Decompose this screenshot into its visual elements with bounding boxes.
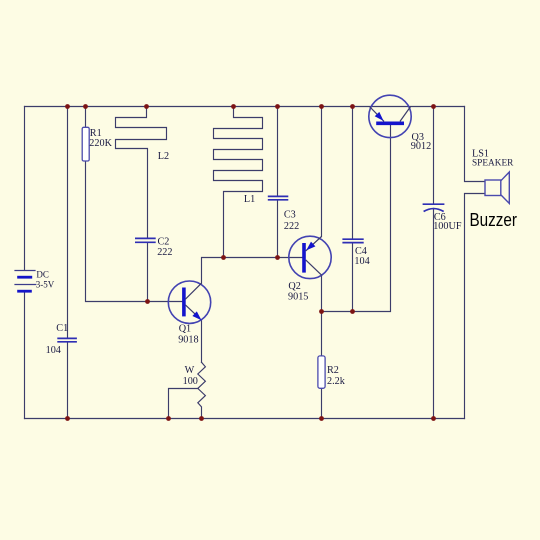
node Q1 base / C2 — [145, 299, 150, 304]
svg-text:222: 222 — [157, 247, 172, 258]
svg-text:9018: 9018 — [178, 335, 198, 346]
wire R1 top lead — [85, 107, 87, 128]
svg-text:220K: 220K — [89, 138, 112, 149]
battery DC: plates — [14, 271, 36, 292]
svg-text:W: W — [185, 365, 195, 376]
battery long plate 2 — [14, 284, 36, 286]
svg-text:R2: R2 — [327, 365, 339, 376]
capacitor C3 — [268, 196, 289, 199]
svg-text:2.2k: 2.2k — [327, 376, 346, 387]
node top rail / L1 — [231, 104, 236, 109]
svg-text:DC: DC — [36, 269, 49, 279]
resistor R2 — [318, 356, 325, 388]
node top rail / C3 — [275, 104, 280, 109]
svg-text:104: 104 — [354, 256, 369, 267]
svg-text:9015: 9015 — [288, 292, 308, 303]
svg-text:Q2: Q2 — [288, 281, 300, 292]
node bottom rail / C6 — [431, 416, 436, 421]
node top rail / Q2 emitter — [319, 104, 324, 109]
wire C2 bottom lead — [147, 242, 149, 301]
wire C4 branch lower — [352, 243, 354, 312]
svg-text:C1: C1 — [56, 323, 68, 334]
wire Q1 collector to Q2 base — [202, 258, 304, 284]
svg-text:L2: L2 — [158, 151, 169, 162]
svg-text:Q1: Q1 — [179, 324, 191, 335]
wire Q2 emitter to rail — [321, 107, 323, 237]
node bottom rail / R2 — [319, 416, 324, 421]
inductor L2 (meander) — [116, 107, 167, 239]
wire R2 top lead — [321, 312, 323, 356]
transistor Q1 (NPN 9018) — [168, 281, 210, 323]
wire left rail upper — [24, 107, 26, 271]
node top rail / L2 — [144, 104, 149, 109]
transistor Q3 (PNP 9012) — [369, 95, 411, 137]
wire left rail lower — [24, 291, 26, 418]
inductor L1 (meander) — [214, 107, 263, 258]
wire C1 branch lower — [67, 342, 69, 418]
wire C3 branch upper — [277, 107, 279, 197]
wire C4 branch upper — [352, 107, 354, 240]
node C3 / Q2 base wire — [275, 255, 280, 260]
svg-text:SPEAKER: SPEAKER — [472, 158, 514, 168]
node top rail / C4 — [350, 104, 355, 109]
node top rail / C6 — [431, 104, 436, 109]
capacitor C1 — [57, 338, 77, 341]
transistor Q2 (PNP 9015) — [289, 236, 331, 278]
battery long plate 1 — [14, 270, 35, 272]
svg-text:C2: C2 — [158, 236, 170, 247]
wire R2 bottom lead — [321, 388, 323, 418]
battery short thick plate 1 — [17, 276, 32, 279]
battery short thick plate 2 — [17, 290, 32, 293]
capacitor C2 — [135, 238, 156, 242]
node top rail / C1 — [65, 104, 70, 109]
svg-text:3-5V: 3-5V — [36, 280, 55, 290]
speaker LS1 symbol — [485, 172, 509, 203]
node bottom rail / C1 — [65, 416, 70, 421]
wire W wiper tap — [169, 389, 199, 419]
node Q2 collector / R2 — [319, 309, 324, 314]
node bottom rail / W — [199, 416, 204, 421]
svg-text:C3: C3 — [284, 210, 296, 221]
wire right side lower (speaker bottom terminal to bottom rail) — [465, 194, 486, 419]
wire Q1 emitter down — [201, 321, 203, 363]
potentiometer W zigzag — [198, 362, 206, 418]
wire C6 branch upper — [433, 107, 435, 205]
svg-text:Buzzer: Buzzer — [470, 209, 518, 230]
wire node to Q3 base — [322, 125, 391, 312]
svg-text:100: 100 — [183, 376, 198, 387]
svg-text:9012: 9012 — [411, 141, 431, 152]
wire C6 branch lower — [433, 208, 435, 418]
svg-text:L1: L1 — [244, 194, 255, 205]
wire right side upper (to speaker top terminal) — [465, 107, 486, 182]
node C4 / Q3 base wire — [350, 309, 355, 314]
svg-text:100UF: 100UF — [433, 221, 462, 232]
wire C1 branch upper — [67, 107, 69, 339]
svg-text:104: 104 — [46, 345, 61, 356]
capacitor C4 — [342, 239, 363, 242]
wire C3 branch lower — [277, 200, 279, 258]
node top rail / R1 — [83, 104, 88, 109]
node L1 / Q2 base wire — [221, 255, 226, 260]
svg-text:222: 222 — [284, 221, 299, 232]
node bottom rail / W wiper — [166, 416, 171, 421]
wire top rail — [25, 106, 465, 108]
resistor R1 — [82, 127, 89, 161]
wire Q2 collector down — [321, 275, 323, 311]
wire bottom rail — [25, 418, 465, 420]
wire R1 bottom lead to Q1 base — [86, 161, 183, 302]
capacitor C6 (electrolytic) — [423, 204, 445, 211]
